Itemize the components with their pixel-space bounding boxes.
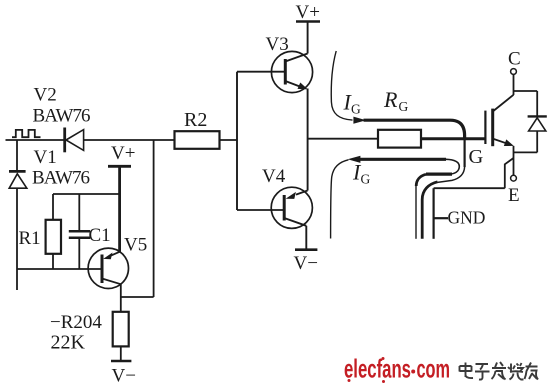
svg-text:V2: V2 [34, 85, 57, 106]
svg-text:G: G [361, 172, 371, 187]
current IG arrow top [331, 51, 366, 124]
power V- bottom left [111, 360, 131, 363]
svg-text:GND: GND [448, 208, 486, 228]
resistor R204 [113, 312, 129, 361]
wire V4 base [237, 209, 284, 211]
wire V2 to R2 [84, 139, 175, 141]
power V+ top [296, 22, 320, 54]
capacitor C1 [69, 194, 90, 269]
wire GND stub [434, 217, 448, 219]
current IG return arrow [331, 156, 446, 239]
wire cable left vertical [415, 184, 417, 239]
char fa [492, 362, 507, 380]
svg-text:V1: V1 [34, 147, 57, 168]
thick return second pass [426, 173, 452, 176]
transistor V4 [271, 187, 312, 228]
svg-text:V+: V+ [296, 2, 320, 23]
svg-text:BAW76: BAW76 [32, 168, 90, 189]
svg-text:R1: R1 [19, 228, 41, 249]
svg-text:V3: V3 [266, 34, 289, 55]
cable bend down-left [416, 174, 426, 186]
svg-text:22K: 22K [51, 332, 86, 354]
thick gate feed line [364, 120, 465, 139]
char dian [460, 363, 474, 379]
wire R1 C1 top rail [53, 193, 120, 195]
wire V5 base [17, 268, 101, 270]
pulse input symbol [12, 130, 41, 137]
svg-text:G: G [469, 146, 484, 168]
svg-text:elecfans: elecfans [344, 354, 411, 384]
svg-text:G: G [399, 99, 409, 114]
svg-text:E: E [508, 185, 520, 206]
svg-text:BAW76: BAW76 [33, 106, 91, 127]
wire R2 to base bus [220, 139, 238, 141]
wire G lead vertical [464, 139, 466, 167]
wire V4 collector down [305, 226, 307, 250]
IGBT [485, 95, 513, 146]
char you [525, 363, 539, 380]
svg-text:V4: V4 [262, 166, 286, 187]
wire V3 base [237, 71, 285, 73]
svg-text:V−: V− [112, 366, 136, 387]
wire collector rail [514, 90, 538, 92]
terminal E [511, 175, 517, 181]
svg-text:V−: V− [294, 253, 318, 274]
freewheel diode [528, 91, 547, 152]
svg-text:R: R [383, 87, 398, 112]
wire collector node horizontal [121, 296, 154, 298]
svg-text:V+: V+ [111, 143, 135, 164]
cable curve from G [438, 167, 465, 182]
cable U-turn [446, 159, 459, 174]
wire V5 collector down [120, 284, 122, 312]
thick gate line RG to gate [421, 137, 485, 140]
resistor R2 [175, 131, 220, 149]
diode V1 [9, 171, 27, 188]
wire node vertical to main line [153, 140, 155, 297]
char zi [475, 364, 490, 380]
terminal C [511, 69, 517, 95]
wire GND vertical [433, 188, 435, 239]
diode V2 [65, 128, 84, 153]
wire emitter branch to GND rail [505, 158, 514, 188]
svg-text:com: com [417, 354, 451, 384]
svg-text:V5: V5 [124, 235, 147, 256]
wire emitter vertical V3-V4 [307, 89, 309, 191]
wire input left [6, 139, 65, 141]
resistor R1 [46, 194, 61, 269]
wire left vertical below V1 [16, 188, 18, 290]
wire output to RG [308, 138, 378, 140]
node input junction [16, 140, 18, 170]
svg-text:C: C [508, 49, 521, 70]
transistor V3 [271, 51, 312, 92]
power V- under V4 [295, 248, 317, 251]
svg-text:R2: R2 [184, 109, 207, 131]
wire emitter return rail [434, 187, 505, 189]
power V+ left [108, 166, 131, 252]
thick cable curl to ground run [422, 182, 437, 239]
logo elecfans.com [344, 354, 450, 384]
wire emitter down [513, 146, 515, 175]
resistor RG [378, 130, 421, 148]
wire base bus vertical [236, 72, 238, 210]
svg-text:C1: C1 [89, 225, 111, 246]
wire emitter rail [514, 151, 538, 153]
transistor V5 [88, 248, 128, 288]
char shao [508, 363, 524, 380]
logo chinese characters [460, 362, 539, 380]
svg-text:−R204: −R204 [50, 312, 102, 333]
svg-text:G: G [351, 102, 361, 117]
